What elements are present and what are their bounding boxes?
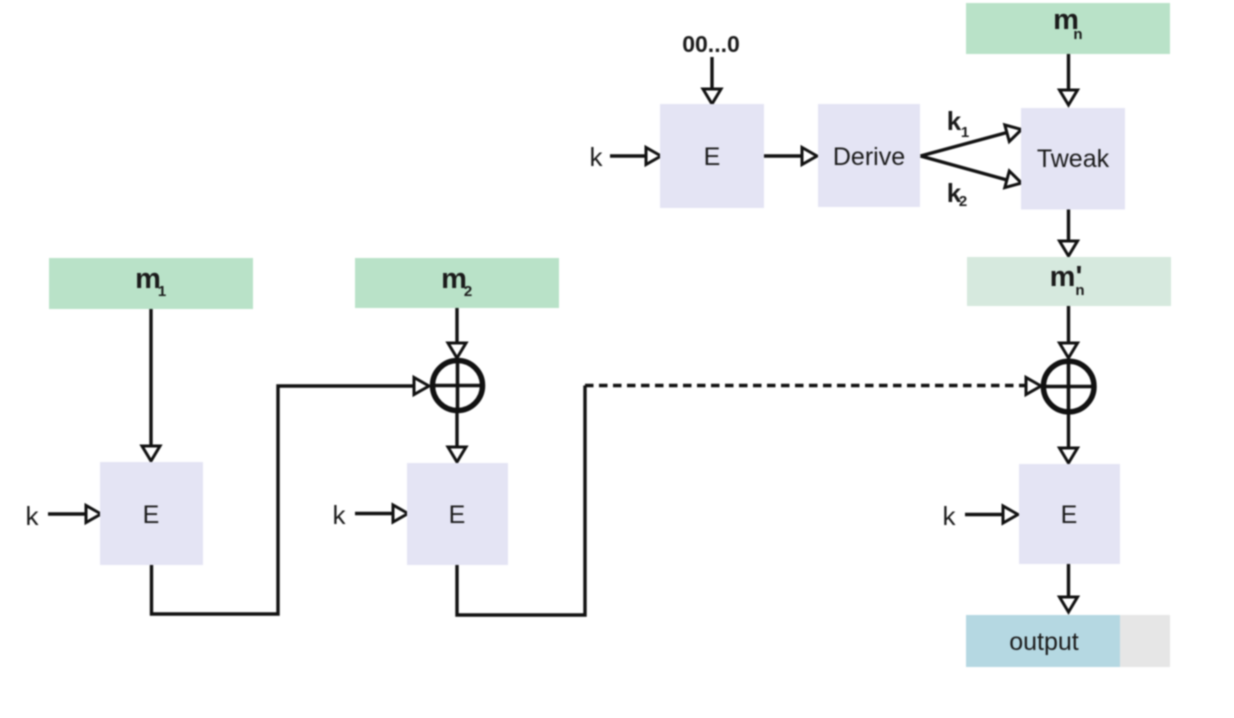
block E2 bbox=[407, 463, 508, 565]
block output bbox=[966, 615, 1170, 667]
wire 00...0 to E top bbox=[703, 57, 721, 104]
svg-text:k: k bbox=[947, 106, 962, 136]
block m'n bbox=[967, 257, 1171, 306]
svg-text:k: k bbox=[26, 501, 40, 531]
label k1 bbox=[947, 106, 969, 141]
block m_n bbox=[966, 3, 1170, 54]
block Tweak bbox=[1021, 108, 1125, 210]
wire E3 to output bbox=[1060, 564, 1078, 612]
xor3 bbox=[1042, 360, 1095, 413]
svg-text:E: E bbox=[143, 501, 160, 529]
block E top bbox=[660, 104, 764, 208]
svg-text:00...0: 00...0 bbox=[682, 31, 740, 57]
svg-text:k: k bbox=[943, 501, 957, 531]
wire E1 feedback to xor1 bbox=[152, 378, 430, 615]
block m1 bbox=[49, 258, 253, 309]
wire m1 to E1 bbox=[142, 309, 160, 461]
svg-text:k: k bbox=[333, 500, 347, 530]
wire k to E2 bbox=[355, 505, 408, 522]
wire E top to Derive bbox=[764, 148, 817, 165]
wire k to E3 bbox=[965, 506, 1018, 523]
svg-text:Tweak: Tweak bbox=[1037, 145, 1110, 173]
svg-text:Derive: Derive bbox=[833, 143, 905, 171]
svg-text:1: 1 bbox=[961, 124, 969, 141]
block E1 bbox=[100, 462, 203, 565]
svg-text:1: 1 bbox=[158, 283, 166, 300]
svg-text:2: 2 bbox=[464, 283, 472, 300]
wire m2 to xor1 bbox=[448, 308, 466, 358]
svg-text:E: E bbox=[449, 501, 466, 529]
wire xor1 to E2 bbox=[448, 411, 466, 462]
wire Tweak to m'n bbox=[1060, 210, 1078, 257]
svg-text:output: output bbox=[1009, 628, 1079, 656]
dashed wire to xor3 bbox=[585, 378, 1041, 395]
wire k to E1 bbox=[48, 506, 101, 523]
wire k to E top bbox=[610, 148, 661, 165]
wire Derive to Tweak k2 bbox=[921, 156, 1022, 188]
block Derive bbox=[818, 104, 920, 207]
wire m_n to Tweak bbox=[1060, 54, 1078, 105]
wire m'n to xor3 bbox=[1060, 306, 1078, 358]
block E3 bbox=[1019, 464, 1120, 564]
svg-text:k: k bbox=[590, 142, 604, 172]
svg-text:n: n bbox=[1073, 26, 1082, 43]
xor1 bbox=[431, 359, 484, 412]
svg-text:E: E bbox=[704, 143, 721, 171]
svg-text:2: 2 bbox=[959, 193, 967, 210]
svg-text:E: E bbox=[1061, 501, 1078, 529]
wire Derive to Tweak k1 bbox=[921, 125, 1022, 156]
svg-text:n: n bbox=[1075, 282, 1084, 299]
wire xor3 to E3 bbox=[1060, 412, 1078, 463]
wire E2 feedback up bbox=[457, 386, 585, 616]
label k2 bbox=[947, 178, 967, 210]
block m2 bbox=[355, 258, 559, 308]
